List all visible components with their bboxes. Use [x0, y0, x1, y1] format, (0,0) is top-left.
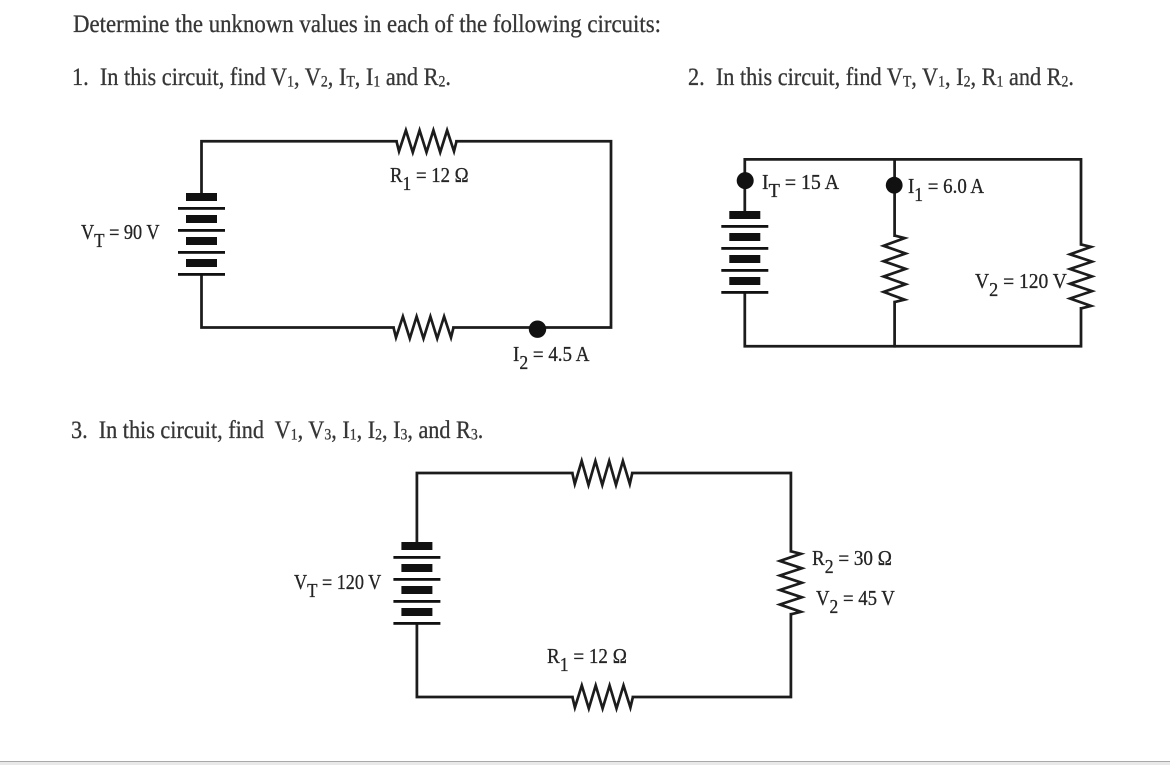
- wire: circuit 2 middle branch upper segment: [893, 159, 896, 235]
- problem 1 text: [72, 65, 451, 90]
- battery VT (circuit 2) thick plate 1: [729, 211, 760, 219]
- resistor R1 (circuit 3, bottom): [572, 686, 633, 709]
- battery VT=90V thick plate 1: [186, 193, 217, 201]
- battery VT=120V thick plate 4: [401, 608, 432, 616]
- value label I2 = 4.5 A (circuit 1 node): [513, 344, 589, 366]
- battery VT=120V thin plate 1: [393, 556, 440, 559]
- resistor R2 (circuit 2, right branch): [1070, 244, 1092, 308]
- battery VT (circuit 2) thin plate 3: [721, 269, 768, 272]
- battery VT=120V thin plate 3: [393, 600, 440, 603]
- wire: circuit 3 top wire right span to R2 upper lead: [632, 473, 791, 551]
- wire: circuit 1 bottom-left corner to battery negative terminal: [202, 276, 394, 328]
- value label R1 = 12 ohm (circuit 1): [390, 165, 469, 187]
- wire: circuit 1 R1 right lead, right side, to bottom resistor R2 right lead: [454, 141, 612, 327]
- battery VT=90V thick plate 4: [186, 259, 217, 267]
- battery VT=120V thin plate 4: [393, 622, 440, 625]
- wire: circuit 3 battery top to top-left corner to R3 left lead: [417, 473, 572, 542]
- battery VT=90V thin plate 1: [178, 207, 225, 210]
- battery VT (circuit 2) thin plate 4: [721, 291, 768, 294]
- resistor R1 (circuit 2, middle branch, unlabeled): [884, 236, 906, 303]
- problem 3 text: [71, 418, 483, 443]
- wire: circuit 2 battery top to top-left corner, top wire left span: [745, 159, 895, 211]
- value label R2 = 30 ohm (circuit 3): [812, 548, 892, 570]
- resistor R3 (circuit 3, top, unlabeled): [572, 461, 632, 485]
- value label IT = 15 A (circuit 2 node): [762, 172, 839, 194]
- resistor R2 (circuit 1, bottom, unlabeled): [394, 317, 454, 339]
- battery VT (circuit 2) thin plate 1: [721, 225, 768, 228]
- value label VT = 90 V (circuit 1 battery): [81, 222, 160, 244]
- wire: circuit 1 battery positive terminal to top-left corner to R1 left lead: [202, 141, 397, 193]
- battery VT=120V thick plate 1: [401, 542, 432, 550]
- wire: circuit 3 R2 lower lead to bottom-right corner to R1 right lead: [633, 614, 791, 697]
- footer strip: [0, 762, 1170, 765]
- battery VT=90V thick plate 3: [186, 237, 217, 245]
- battery VT=120V thick plate 2: [401, 564, 432, 572]
- battery VT=90V thin plate 4: [178, 273, 225, 276]
- title text: [73, 12, 661, 37]
- wire: circuit 2 right branch lower lead, bottom wire, to battery bottom: [745, 294, 1081, 346]
- value label V2 = 45 V (circuit 3 resistor R2): [816, 588, 895, 610]
- value label R1 = 12 ohm (circuit 3): [547, 646, 627, 668]
- value label I1 = 6.0 A (circuit 2 node): [908, 176, 984, 198]
- node I2 junction dot (circuit 1 bottom wire): [529, 321, 546, 338]
- node I1 junction dot (circuit 2 middle branch): [886, 177, 903, 194]
- battery VT=90V thin plate 3: [178, 251, 225, 254]
- battery VT (circuit 2) thin plate 2: [721, 247, 768, 250]
- wire: circuit 2 top wire right span to right branch upper lead: [895, 159, 1081, 244]
- battery VT (circuit 2) thick plate 2: [729, 233, 760, 241]
- battery VT (circuit 2) thick plate 3: [729, 255, 760, 263]
- battery VT=120V thin plate 2: [393, 578, 440, 581]
- resistor R1 (circuit 1, top): [397, 130, 457, 152]
- problem 2 text: [688, 65, 1074, 90]
- wire: circuit 3 bottom-left corner to battery bottom: [417, 625, 573, 697]
- footer divider line: [0, 761, 1170, 763]
- battery VT=90V thin plate 2: [178, 229, 225, 232]
- battery VT=120V thick plate 3: [401, 586, 432, 594]
- battery VT (circuit 2) thick plate 4: [729, 277, 760, 285]
- wire: circuit 2 middle branch lower segment: [893, 302, 896, 346]
- node IT junction dot (circuit 2 left branch): [737, 172, 754, 189]
- battery VT=90V thick plate 2: [186, 215, 217, 223]
- value label VT = 120 V (circuit 3 battery): [294, 572, 381, 594]
- value label V2 = 120 V (circuit 2 resistor R2): [975, 271, 1067, 293]
- resistor R2 (circuit 3, right side): [780, 551, 802, 614]
